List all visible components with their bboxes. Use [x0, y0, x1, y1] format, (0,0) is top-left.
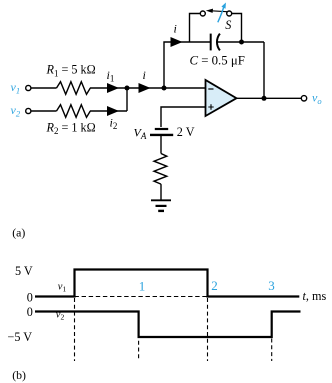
svg-text:(a): (a): [12, 226, 25, 240]
svg-text:i: i: [174, 22, 177, 36]
svg-text:0: 0: [27, 305, 33, 319]
svg-text:1: 1: [139, 278, 146, 293]
svg-text:i: i: [143, 68, 146, 82]
svg-text:0: 0: [27, 291, 33, 305]
svg-text:(b): (b): [12, 368, 26, 382]
svg-text:S: S: [225, 18, 231, 32]
svg-text:2 V: 2 V: [177, 125, 195, 139]
svg-text:−5 V: −5 V: [8, 330, 33, 344]
svg-text:5 V: 5 V: [15, 264, 33, 278]
svg-text:2: 2: [211, 278, 218, 293]
svg-text:R1 = 5 kΩ: R1 = 5 kΩ: [46, 63, 96, 79]
svg-text:R2 = 1 kΩ: R2 = 1 kΩ: [46, 120, 96, 136]
svg-text:3: 3: [268, 278, 275, 293]
svg-text:C = 0.5 μF: C = 0.5 μF: [190, 53, 245, 67]
svg-text:t, ms: t, ms: [303, 289, 327, 303]
